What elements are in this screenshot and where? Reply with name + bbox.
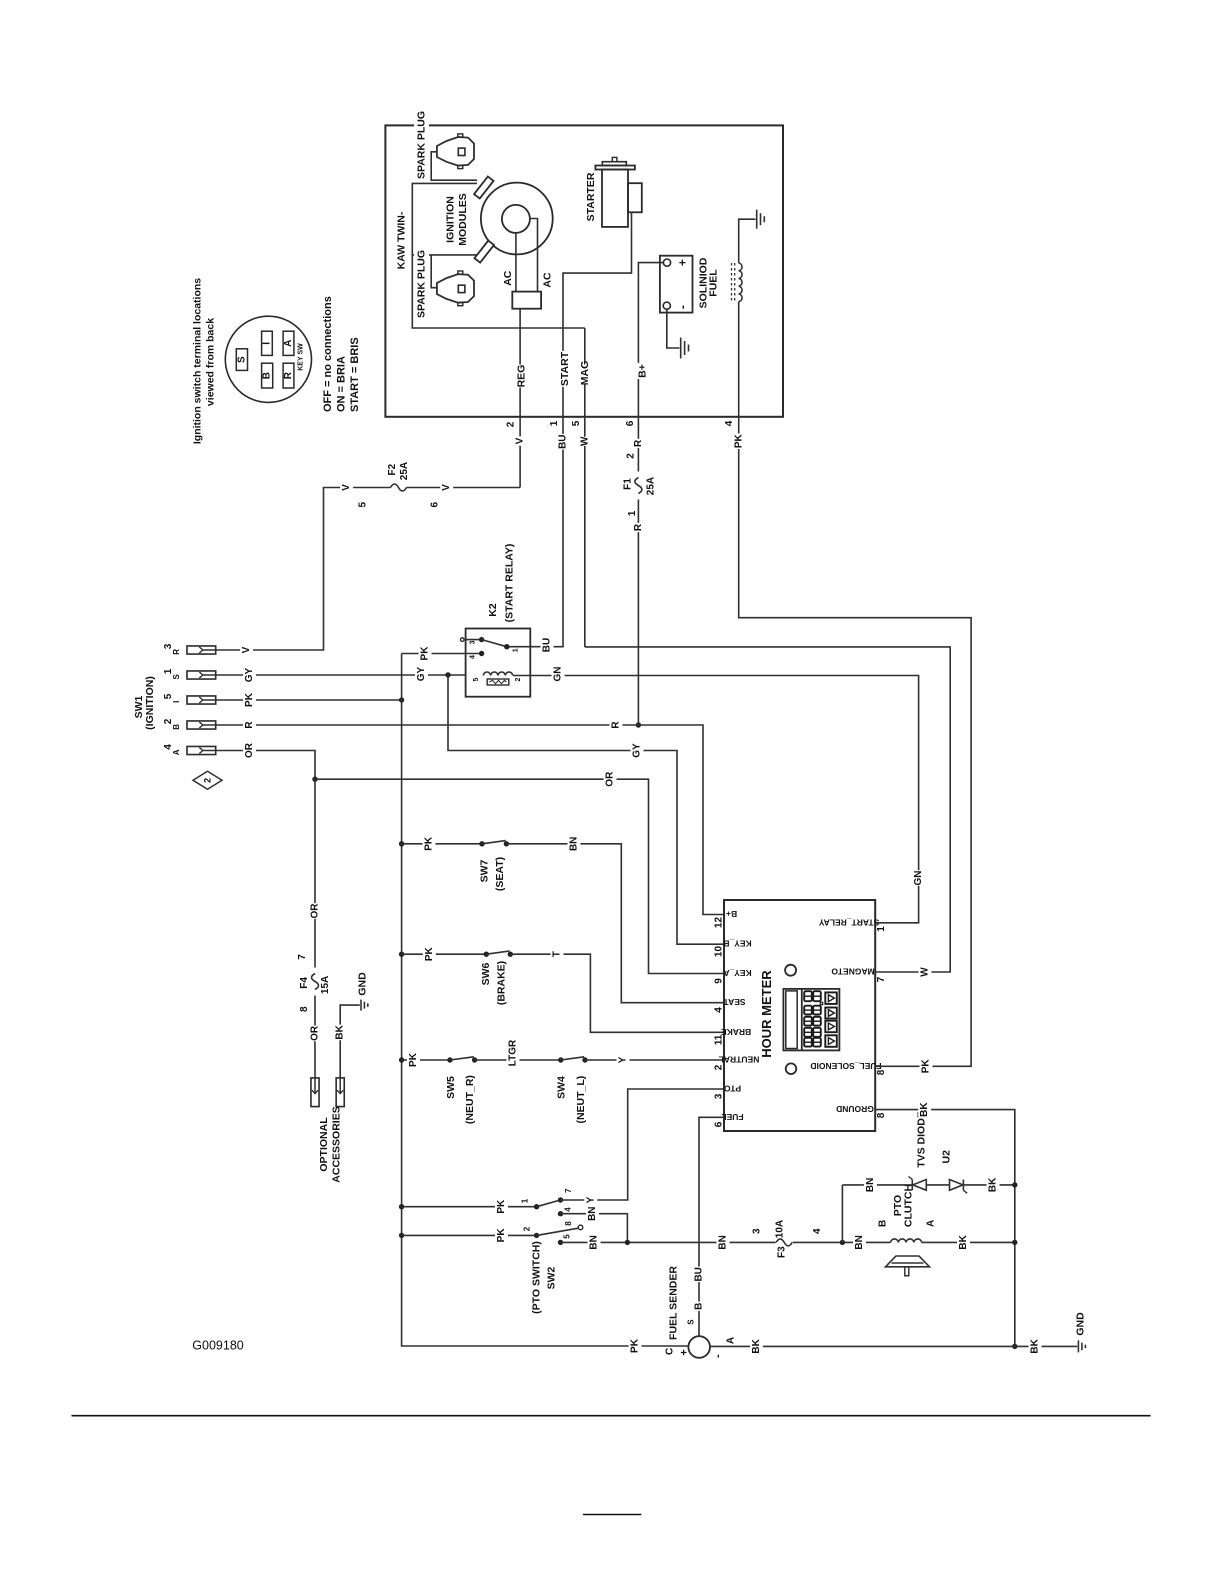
- hour meter pin 8 GROUND: [836, 1104, 887, 1118]
- svg-text:SW7: SW7: [479, 859, 491, 882]
- wire T brake to hour meter BRAKE: [510, 950, 724, 1033]
- hour meter pin 10 KEY_B: [714, 939, 752, 957]
- svg-text:A: A: [283, 340, 294, 347]
- svg-text:T: T: [552, 951, 563, 957]
- svg-text:11: 11: [714, 1034, 725, 1045]
- switch SW4 (NEUT_L): [556, 1057, 588, 1124]
- svg-text:B: B: [694, 1303, 705, 1310]
- svg-text:START_RELAY: START_RELAY: [818, 917, 879, 927]
- wire BU net: START pin 1 to relay K2 common: [509, 212, 632, 653]
- svg-text:FUEL_SOLENOID: FUEL_SOLENOID: [810, 1061, 881, 1071]
- svg-text:PK: PK: [496, 1199, 507, 1214]
- svg-text:4: 4: [163, 744, 174, 750]
- svg-text:MODULES: MODULES: [457, 193, 469, 246]
- wire BN net: PTO switch to fuse F3 and PTO clutch: [558, 1235, 891, 1251]
- switch SW7 (SEAT): [399, 836, 509, 891]
- fuel solenoid coil: [698, 257, 743, 308]
- svg-text:4: 4: [812, 1228, 823, 1234]
- svg-text:BK: BK: [988, 1177, 999, 1192]
- relay K2 (START RELAY): [461, 544, 531, 697]
- SW1 pin 4 terminal A: [163, 744, 216, 755]
- svg-text:-: -: [712, 1354, 724, 1358]
- svg-text:GN: GN: [553, 667, 564, 682]
- svg-text:12: 12: [714, 917, 725, 929]
- switch SW6 (BRAKE): [399, 946, 513, 1005]
- svg-text:R: R: [172, 649, 181, 655]
- svg-text:V: V: [241, 646, 252, 653]
- svg-text:SEAT: SEAT: [723, 997, 746, 1007]
- svg-text:B: B: [877, 1220, 888, 1227]
- svg-text:U2: U2: [941, 1150, 953, 1164]
- svg-text:3: 3: [714, 1093, 725, 1099]
- svg-text:GN: GN: [913, 871, 924, 886]
- wire AC 1: [515, 233, 517, 292]
- ignition module bracket outline: [412, 183, 585, 328]
- starter motor: [585, 157, 642, 227]
- svg-text:START = BRIS: START = BRIS: [349, 337, 361, 412]
- svg-text:5: 5: [473, 677, 480, 681]
- svg-text:PK: PK: [408, 1052, 419, 1067]
- svg-text:OR: OR: [310, 903, 321, 919]
- svg-text:F3: F3: [776, 1246, 787, 1258]
- page number line: [583, 1514, 641, 1516]
- svg-text:2: 2: [626, 453, 637, 459]
- flywheel hub: [502, 205, 530, 233]
- wire fuel solenoid to ground: [739, 219, 756, 263]
- svg-text:KEY_A: KEY_A: [723, 968, 751, 978]
- svg-text:SW6: SW6: [480, 962, 492, 985]
- fuel sender: [665, 1266, 725, 1358]
- svg-text:PK: PK: [424, 946, 435, 961]
- hour meter seven-segment digits: [804, 991, 823, 1046]
- svg-text:5: 5: [358, 501, 369, 507]
- svg-text:BK: BK: [958, 1234, 969, 1249]
- svg-text:GND: GND: [357, 972, 369, 996]
- svg-text:Y: Y: [618, 1056, 629, 1063]
- ignition module 1: [474, 176, 493, 198]
- svg-text:R: R: [633, 439, 644, 447]
- svg-text:2: 2: [506, 421, 517, 427]
- hour meter pin 7 MAGNETO: [831, 967, 887, 983]
- flywheel magneto: [481, 183, 553, 255]
- svg-text:TVS DIODE: TVS DIODE: [916, 1111, 928, 1168]
- svg-text:BN: BN: [865, 1178, 876, 1192]
- svg-text:PK: PK: [630, 1338, 641, 1353]
- svg-text:2: 2: [714, 1064, 725, 1070]
- wire GN net: relay coil to hour meter START_RELAY: [513, 666, 925, 923]
- svg-text:BN: BN: [587, 1206, 598, 1220]
- optional accessories connector OR: [311, 1078, 319, 1107]
- svg-text:4: 4: [564, 1207, 573, 1212]
- svg-text:V: V: [341, 484, 352, 491]
- svg-text:FUEL: FUEL: [721, 1112, 743, 1122]
- svg-text:BK: BK: [335, 1024, 346, 1039]
- svg-text:4: 4: [724, 420, 735, 426]
- svg-text:(NEUT_R): (NEUT_R): [464, 1075, 476, 1124]
- svg-text:K2: K2: [487, 603, 499, 617]
- SW2 pole 1 contacts: [399, 1188, 573, 1214]
- svg-text:C: C: [665, 1348, 676, 1355]
- svg-text:3: 3: [752, 1228, 763, 1234]
- wire PK net: engine pin 4 to hour meter FUEL_SOLENOID: [733, 302, 972, 1075]
- svg-text:viewed from back: viewed from back: [205, 318, 217, 406]
- svg-text:15A: 15A: [320, 976, 331, 994]
- svg-text:SW2: SW2: [546, 1266, 558, 1289]
- SW1 pin 5 terminal I: [163, 693, 216, 704]
- key switch terminal diagram KEY SW: [225, 316, 311, 402]
- wire V net: REG pin 2 through fuse F2 to key switch R terminal: [215, 309, 528, 655]
- spark plug 1: [414, 108, 474, 182]
- wire R net: B+ pin 6 through fuse F1 to key switch B and hour meter B+: [215, 263, 724, 915]
- footer rule: [72, 1415, 1151, 1417]
- svg-text:KEY SW: KEY SW: [298, 343, 305, 371]
- svg-text:AC: AC: [502, 270, 514, 286]
- svg-text:B+: B+: [726, 909, 737, 919]
- svg-text:+: +: [675, 259, 689, 266]
- svg-text:BK: BK: [751, 1338, 762, 1353]
- wire Y PTO switch to hour meter PTO: [561, 1089, 725, 1205]
- svg-text:ACCESSORIES: ACCESSORIES: [331, 1106, 343, 1182]
- svg-text:SW4: SW4: [556, 1076, 568, 1099]
- svg-text:5: 5: [571, 420, 582, 426]
- SW2 pole 1 normally-closed contact 4 with BN wire: [558, 1206, 628, 1243]
- wire BN seat to hour meter SEAT: [506, 836, 724, 1003]
- svg-text:V: V: [441, 484, 452, 491]
- svg-text:OR: OR: [310, 1025, 321, 1041]
- wire LTGR between neutral switches: [475, 1039, 561, 1067]
- svg-text:STARTER: STARTER: [585, 172, 597, 221]
- wire W net: MAG pin 5 to hour meter MAGNETO: [578, 328, 950, 977]
- svg-text:5: 5: [562, 1234, 571, 1239]
- svg-text:PK: PK: [921, 1059, 932, 1074]
- switch SW2 (PTO SWITCH): [531, 1241, 558, 1314]
- svg-text:SPARK PLUG: SPARK PLUG: [416, 111, 428, 179]
- svg-text:25A: 25A: [646, 477, 657, 495]
- svg-text:GY: GY: [632, 743, 643, 758]
- wire Y neutral to hour meter NEUTRAL: [585, 1055, 724, 1064]
- svg-text:AC: AC: [542, 272, 554, 288]
- svg-text:PTO: PTO: [723, 1084, 741, 1094]
- svg-text:6: 6: [430, 501, 441, 507]
- svg-text:5: 5: [163, 693, 174, 699]
- svg-text:GROUND: GROUND: [836, 1104, 874, 1114]
- svg-text:BN: BN: [569, 837, 580, 851]
- svg-text:BRAKE: BRAKE: [721, 1027, 752, 1037]
- svg-text:MAGNETO: MAGNETO: [831, 967, 875, 977]
- svg-text:KEY_B: KEY_B: [723, 939, 751, 949]
- svg-text:FUEL: FUEL: [708, 269, 720, 297]
- svg-text:BN: BN: [589, 1235, 600, 1249]
- svg-text:(BRAKE): (BRAKE): [496, 961, 508, 1005]
- fuse F2 25A: [358, 462, 441, 508]
- svg-text:(START RELAY): (START RELAY): [504, 544, 516, 623]
- SW1 pin 1 terminal S: [163, 668, 216, 679]
- spark plug 2: [414, 250, 474, 320]
- svg-text:A: A: [925, 1220, 936, 1227]
- svg-text:4: 4: [714, 1007, 725, 1013]
- hour meter pin 1 START_RELAY: [818, 917, 887, 931]
- svg-text:PK: PK: [420, 646, 431, 661]
- svg-text:-: -: [675, 305, 689, 309]
- ignition modules label: [445, 193, 470, 246]
- svg-text:9: 9: [714, 978, 725, 984]
- hour meter pin 6 FUEL: [714, 1112, 744, 1127]
- engine pin numbers: [506, 420, 736, 427]
- svg-text:B: B: [172, 724, 181, 730]
- hour meter pin 9 KEY_A: [714, 968, 752, 984]
- svg-text:KAW TWIN-: KAW TWIN-: [396, 211, 408, 269]
- svg-text:25A: 25A: [399, 462, 410, 480]
- regulator rectifier block: [512, 292, 541, 309]
- svg-text:8: 8: [876, 1112, 887, 1118]
- svg-text:R: R: [244, 721, 255, 729]
- svg-text:BU: BU: [558, 434, 569, 448]
- svg-text:(NEUT_L): (NEUT_L): [575, 1076, 587, 1124]
- svg-text:R: R: [633, 523, 644, 531]
- svg-text:1: 1: [521, 1198, 530, 1203]
- svg-text:2: 2: [523, 1226, 532, 1231]
- battery: [660, 256, 693, 313]
- svg-text:A: A: [726, 1337, 737, 1344]
- svg-text:1: 1: [163, 668, 174, 674]
- ground fuel solenoid: [756, 210, 758, 229]
- svg-text:I: I: [262, 342, 273, 345]
- fuse F1 25A: [623, 453, 657, 517]
- svg-text:NEUTRAL: NEUTRAL: [719, 1055, 760, 1065]
- optional accessories label: [318, 1106, 343, 1182]
- svg-text:LTGR: LTGR: [508, 1039, 519, 1066]
- svg-text:I: I: [172, 701, 181, 703]
- wire BU net: fuel sender to hour meter FUEL: [687, 1117, 725, 1336]
- svg-text:4: 4: [469, 655, 476, 659]
- svg-text:1: 1: [549, 420, 560, 426]
- svg-text:ON = BRIA: ON = BRIA: [336, 356, 348, 412]
- wire spark plug 1 to ignition module: [431, 152, 477, 180]
- svg-text:6: 6: [714, 1121, 725, 1127]
- svg-text:F4: F4: [299, 977, 310, 989]
- ground optional accessories GND: [357, 972, 369, 1011]
- hour meter buttons: [825, 992, 837, 1046]
- ignition switch terminal location caption: [192, 278, 217, 444]
- svg-text:(PTO SWITCH): (PTO SWITCH): [531, 1241, 543, 1314]
- wire AC 2: [530, 219, 538, 292]
- svg-text:8: 8: [876, 1069, 887, 1075]
- wire GY net: key switch S to relay coil and hour meter KEY_B: [215, 666, 724, 944]
- svg-text:GND: GND: [1075, 1312, 1087, 1336]
- svg-text:R: R: [611, 721, 622, 729]
- svg-text:1: 1: [627, 510, 638, 516]
- svg-text:6: 6: [625, 420, 636, 426]
- ground battery: [680, 338, 682, 359]
- svg-text:3: 3: [163, 643, 174, 649]
- svg-text:BU: BU: [694, 1267, 705, 1281]
- svg-text:SPARK PLUG: SPARK PLUG: [416, 250, 428, 318]
- wire BK net: fuel sender negative to ground: [710, 1337, 1077, 1354]
- svg-text:IGNITION: IGNITION: [445, 196, 457, 243]
- svg-text:W: W: [579, 436, 590, 446]
- svg-text:(IGNITION): (IGNITION): [144, 676, 156, 730]
- svg-text:FUEL SENDER: FUEL SENDER: [668, 1266, 680, 1340]
- SW1 pin 2 terminal B: [163, 718, 216, 729]
- hour meter pin 3 PTO: [714, 1084, 742, 1100]
- hour meter pin 2 NEUTRAL: [714, 1055, 760, 1071]
- svg-text:OR: OR: [605, 771, 616, 787]
- svg-text:A: A: [172, 749, 181, 755]
- hour meter pin 12 B+: [714, 909, 738, 928]
- fuse F3 10A: [752, 1220, 824, 1258]
- note diamond 2: [193, 771, 222, 789]
- wire spark plug 2 to ignition module: [431, 255, 437, 288]
- svg-text:7: 7: [876, 976, 887, 982]
- svg-text:2: 2: [515, 677, 522, 681]
- svg-text:Y: Y: [585, 1196, 596, 1203]
- svg-text:S: S: [172, 673, 181, 679]
- svg-text:CLUTCH: CLUTCH: [903, 1184, 915, 1227]
- svg-text:B: B: [262, 372, 273, 379]
- svg-text:R: R: [283, 371, 294, 379]
- hour meter module: [724, 900, 875, 1131]
- svg-text:S: S: [687, 1319, 696, 1325]
- svg-text:BK: BK: [919, 1102, 930, 1117]
- svg-text:PK: PK: [424, 836, 435, 851]
- svg-text:OR: OR: [244, 742, 255, 758]
- svg-text:1: 1: [876, 926, 887, 932]
- engine box KAW TWIN-: [385, 125, 783, 416]
- wire OR net: key switch A to hour meter KEY_A and accessory fuse: [215, 742, 724, 1078]
- svg-text:B+: B+: [637, 364, 649, 378]
- svg-text:S: S: [237, 356, 248, 363]
- svg-text:PK: PK: [496, 1228, 507, 1243]
- svg-text:10A: 10A: [775, 1220, 786, 1238]
- hour meter pin 4 SEAT: [714, 997, 746, 1013]
- SW2 pole 2 contacts: [399, 1221, 583, 1243]
- hour meter pin 8 FUEL_SOLENOID: [810, 1061, 887, 1075]
- ground chassis GND: [1075, 1312, 1087, 1352]
- svg-text:1: 1: [512, 648, 519, 652]
- svg-text:OFF = no connections: OFF = no connections: [322, 296, 334, 412]
- svg-text:+: +: [679, 1349, 691, 1355]
- svg-text:F2: F2: [387, 463, 398, 475]
- ignition module 2: [474, 241, 493, 263]
- connector SW1 (IGNITION): [133, 676, 156, 730]
- svg-text:SW5: SW5: [445, 1076, 457, 1099]
- svg-text:2: 2: [203, 778, 213, 783]
- svg-text:8: 8: [299, 1006, 310, 1012]
- hour meter pin 11 BRAKE: [714, 1027, 752, 1045]
- svg-text:REG: REG: [516, 365, 528, 388]
- svg-text:Ignition switch terminal locat: Ignition switch terminal locations: [192, 278, 204, 444]
- svg-text:(SEAT): (SEAT): [494, 857, 506, 891]
- wire BK net: hour meter GROUND to chassis ground: [875, 1102, 1017, 1349]
- svg-text:3: 3: [469, 640, 476, 644]
- svg-text:7: 7: [564, 1188, 573, 1193]
- svg-text:7: 7: [297, 954, 308, 960]
- svg-text:GY: GY: [244, 667, 255, 682]
- svg-text:BK: BK: [1030, 1338, 1041, 1353]
- svg-text:GY: GY: [416, 666, 427, 681]
- svg-text:BN: BN: [854, 1235, 865, 1249]
- svg-text:8: 8: [564, 1221, 573, 1226]
- svg-text:BN: BN: [718, 1235, 729, 1249]
- optional accessories connector BK with ground: [334, 1005, 360, 1107]
- svg-text:F1: F1: [623, 478, 634, 490]
- svg-text:2: 2: [163, 718, 174, 724]
- hour meter LCD display: [783, 989, 839, 1051]
- svg-text:MAG: MAG: [579, 361, 591, 386]
- svg-text:BU: BU: [542, 638, 553, 652]
- TVS diode U2: [842, 1111, 1014, 1242]
- svg-text:W: W: [920, 967, 931, 977]
- svg-text:START: START: [559, 351, 571, 386]
- fuse F4 15A: [297, 954, 331, 1012]
- wire BK PTO clutch to ground bus: [922, 1234, 1015, 1250]
- svg-text:G009180: G009180: [192, 1339, 243, 1353]
- svg-text:V: V: [515, 437, 526, 444]
- PTO clutch coil: [877, 1184, 936, 1276]
- svg-text:PK: PK: [244, 692, 255, 707]
- svg-text:HOUR METER: HOUR METER: [759, 970, 774, 1058]
- svg-text:10: 10: [714, 946, 725, 958]
- svg-text:OPTIONAL: OPTIONAL: [318, 1117, 330, 1172]
- svg-text:PK: PK: [734, 433, 745, 448]
- wire battery negative to ground: [667, 309, 680, 348]
- wire PK net: key switch I to relay K2 and interlock switch bus: [215, 646, 688, 1354]
- key switch position legend: [322, 296, 361, 412]
- switch SW5 (NEUT_R): [399, 1052, 477, 1124]
- SW1 pin 3 terminal R: [163, 643, 216, 654]
